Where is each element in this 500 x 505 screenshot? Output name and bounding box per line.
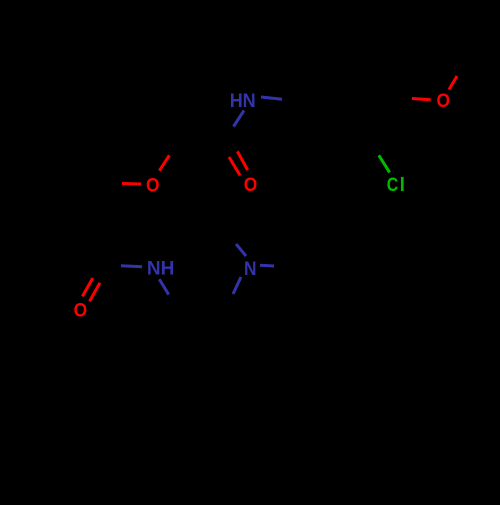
svg-text:O: O [146,175,160,196]
wire: carbonyl C=O1 double bond red half line 1 [237,151,247,170]
wire: ether O2 up-right bond stub [159,155,169,170]
wire: carbonyl C=O1 double bond red half line 2 [229,157,240,175]
wire: amine N3 right bond stub (blue half) [260,264,274,268]
wire: Cl bond stub (green half) [379,155,390,172]
wire: methoxy O3 to CH3 bond stub [449,76,457,90]
wire: amide N2 left bond stub (blue half) [121,264,142,268]
svg-text:C: C [387,175,399,196]
wire: amine N3 down-left bond stub (blue half) [233,277,241,294]
svg-text:O: O [74,301,88,322]
wire: amine N3 up-left bond stub (blue half) [236,244,246,256]
wire: methoxy O3 left bond stub [412,99,431,100]
wire: bond stub N1-C(=O) (blue half) [234,111,245,127]
wire: amide N2 down-right bond stub (blue half) [159,279,168,294]
svg-text:N: N [244,259,257,280]
svg-text:O: O [244,175,258,196]
svg-text:O: O [436,91,450,112]
svg-text:NH: NH [147,259,175,280]
wire: amide C=O4 double bond red half line 2 [90,283,100,301]
wire: ether O2 left bond stub [122,182,141,186]
svg-text:l: l [400,175,405,196]
svg-text:HN: HN [230,91,256,112]
wire: bond stub N1-aryl (blue half) [261,97,282,99]
wire: amide C=O4 double bond red half line 1 [82,278,92,296]
